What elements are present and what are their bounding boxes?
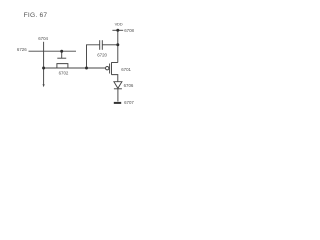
svg-text:6720: 6720 [97,52,107,57]
svg-text:6706: 6706 [124,83,134,88]
svg-text:VDD: VDD [115,22,123,27]
svg-text:6708: 6708 [124,28,134,33]
svg-text:FIG. 67: FIG. 67 [24,12,48,19]
svg-text:6707: 6707 [124,100,134,105]
svg-text:6702: 6702 [59,70,69,75]
svg-text:6704: 6704 [38,36,48,41]
svg-text:6726: 6726 [17,47,27,52]
svg-text:6701: 6701 [121,67,131,72]
